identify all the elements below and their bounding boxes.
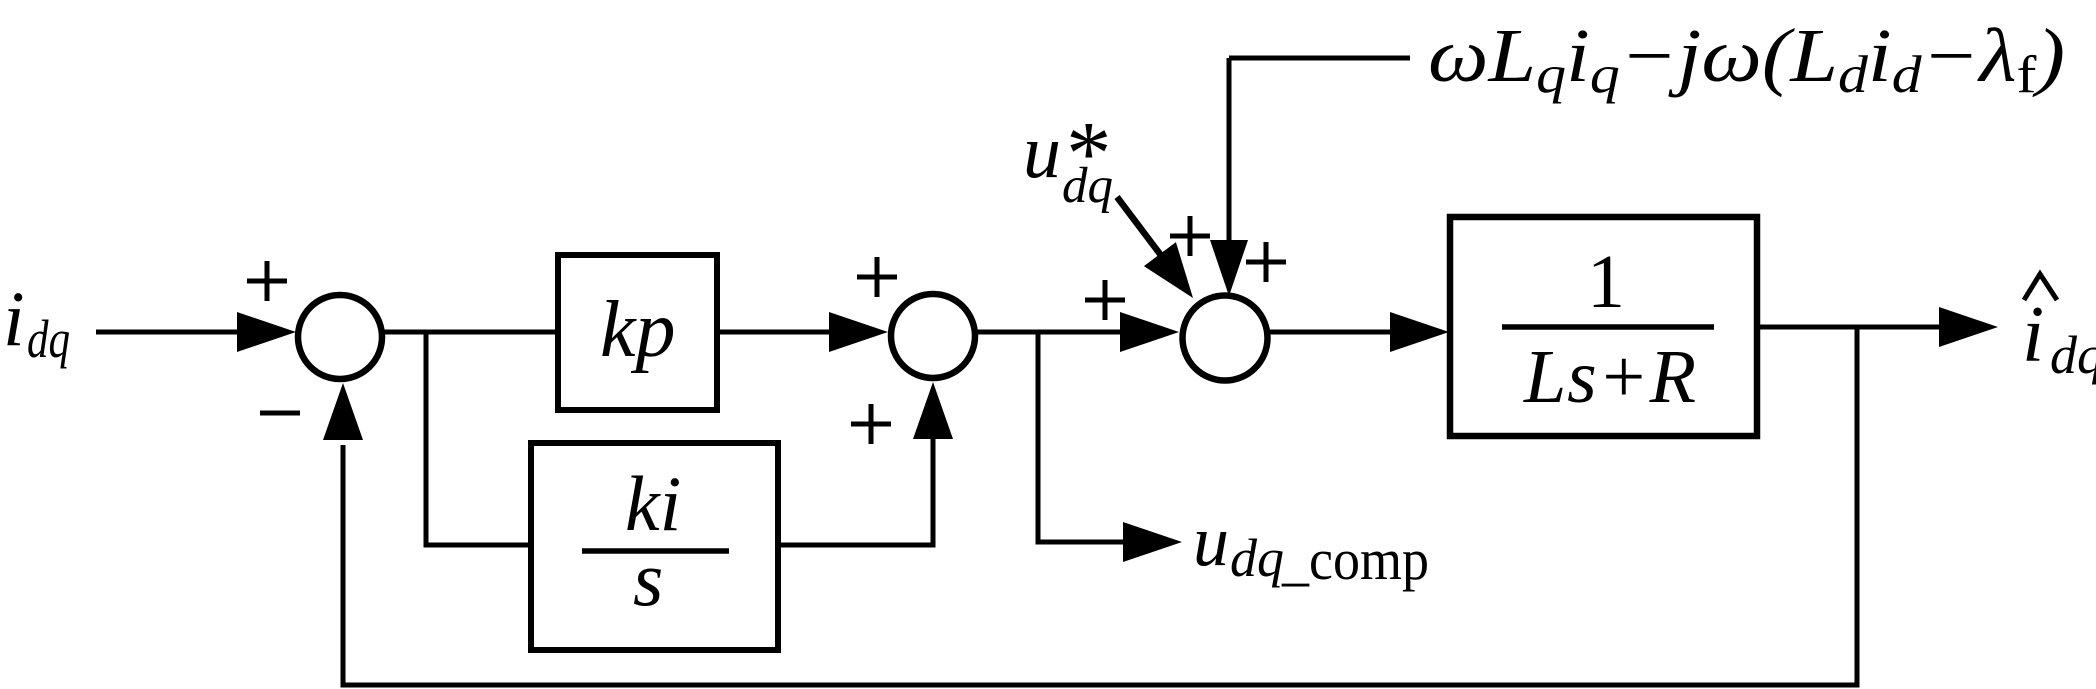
svg-text:i: i bbox=[3, 275, 25, 362]
plus sign at S3 upper-right input bbox=[1246, 242, 1286, 282]
wire input to summing junction S1 bbox=[96, 330, 245, 335]
plus sign at S1 top input bbox=[247, 261, 287, 301]
wire block output to i_dq hat bbox=[1757, 325, 1945, 330]
svg-text:u: u bbox=[1193, 501, 1229, 581]
svg-text:dq: dq bbox=[1062, 158, 1113, 214]
arrow from u*_dq into S3 bbox=[1117, 197, 1163, 258]
svg-text:u: u bbox=[1023, 110, 1061, 194]
wire S1 to block kp bbox=[382, 330, 558, 335]
label u*_dq bbox=[1023, 103, 1113, 214]
minus sign at S1 bottom input bbox=[260, 411, 300, 416]
label equation wLqiq-jw(Ldid-lf) bbox=[1428, 14, 2065, 104]
wire from equation elbow bbox=[1229, 56, 1410, 61]
wire kp to summing junction S2 bbox=[717, 330, 835, 335]
svg-text:_comp: _comp bbox=[1281, 527, 1429, 592]
plus sign at S2 left input bbox=[857, 257, 897, 297]
plus sign at S2 bottom input bbox=[851, 404, 891, 444]
summing junction S2 bbox=[891, 294, 975, 378]
block ki/s bbox=[531, 443, 778, 650]
svg-text:ωLqiq−jω(Ldid−λf): ωLqiq−jω(Ldid−λf) bbox=[1428, 14, 2065, 104]
svg-text:Ls+R: Ls+R bbox=[1523, 335, 1696, 419]
svg-text:i: i bbox=[2022, 291, 2044, 379]
svg-text:s: s bbox=[633, 535, 663, 622]
label i_dq bbox=[3, 275, 70, 369]
wire S3 to block 1/(Ls+R) bbox=[1268, 330, 1395, 335]
block 1/(Ls+R) bbox=[1450, 217, 1757, 436]
svg-text:dq: dq bbox=[1230, 528, 1284, 588]
wire ki/s up into S2 bbox=[778, 435, 933, 545]
plus sign at S3 upper-left input bbox=[1170, 216, 1210, 256]
wire from compensation equation down into S3 bbox=[1227, 58, 1232, 245]
wire branch down to u_dq_comp output bbox=[1038, 332, 1128, 542]
label i_dq hat bbox=[2022, 291, 2096, 385]
svg-text:ki: ki bbox=[625, 460, 681, 547]
svg-text:dq: dq bbox=[27, 309, 70, 369]
svg-text:1: 1 bbox=[1587, 240, 1625, 324]
wire feedback branch down bbox=[343, 327, 1857, 685]
wire S2 to summing junction S3 bbox=[975, 330, 1125, 335]
wire branch down to block ki/s bbox=[426, 332, 531, 545]
plus sign at S3 left input bbox=[1085, 280, 1125, 320]
summing junction S1 bbox=[298, 295, 382, 379]
label u_dq_comp bbox=[1193, 501, 1429, 592]
block kp bbox=[558, 255, 717, 410]
svg-text:dq: dq bbox=[2050, 325, 2096, 385]
summing junction S3 bbox=[1183, 296, 1268, 381]
svg-text:kp: kp bbox=[600, 286, 676, 374]
